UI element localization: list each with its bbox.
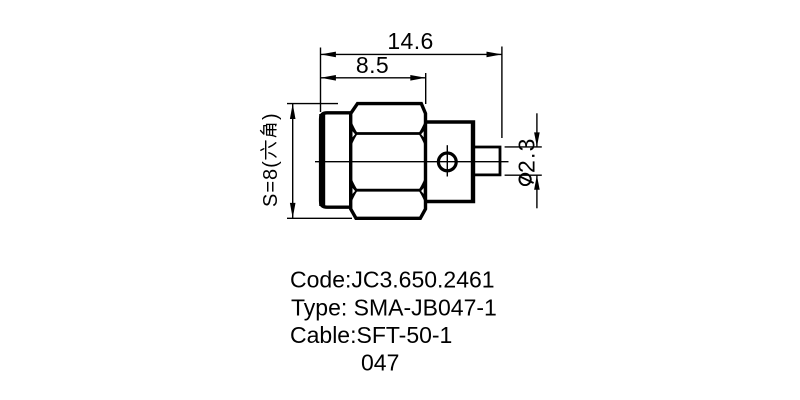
dimension dia2.3 diameter symbol [519, 174, 533, 185]
dimension 14.6 extension line right [501, 47, 503, 139]
svg-text:2.3: 2.3 [514, 137, 540, 173]
svg-text:): ) [260, 113, 282, 120]
hex facet line upper [351, 132, 426, 135]
svg-text:14.6: 14.6 [387, 28, 433, 54]
svg-text:047: 047 [361, 350, 399, 376]
svg-text:8.5: 8.5 [356, 52, 389, 78]
dimension dia2.3 leader line top [536, 113, 538, 147]
dimension S=8 rotated label with CJK glyphs [260, 113, 282, 207]
right body section [426, 122, 474, 202]
dimension 8.5 arrow right [410, 75, 425, 81]
hex facet line lower [351, 189, 426, 192]
dimension 14.6 line [321, 53, 502, 55]
horizontal centerline [315, 161, 509, 163]
hex body silhouette [351, 104, 426, 219]
CJK glyph liu (six) [261, 141, 276, 159]
CJK glyph jiao (angle/horn) [261, 124, 277, 136]
svg-text:S=8(: S=8( [260, 160, 282, 207]
dimension 14.6 extension line left [320, 48, 322, 113]
crimp hole circle [438, 153, 456, 171]
svg-text:Type: SMA-JB047-1: Type: SMA-JB047-1 [291, 295, 497, 321]
dimension dia2.3 extension line top [505, 146, 542, 148]
dimension S=8 line [292, 104, 294, 219]
dimension dia2.3 arrow bottom [534, 175, 540, 190]
svg-text:Cable:SFT-50-1: Cable:SFT-50-1 [290, 322, 452, 348]
dimension 8.5 arrow left [321, 75, 336, 81]
svg-text:Code:JC3.650.2461: Code:JC3.650.2461 [290, 267, 495, 293]
dimension S=8 extension line bottom [287, 217, 352, 219]
dimension 8.5 extension line right [425, 73, 427, 104]
dimension dia2.3 leader line bottom [536, 175, 538, 208]
dimension S=8 extension line top [287, 103, 338, 105]
dimension dia2.3 arrow top [534, 132, 540, 147]
dimension S=8 arrow top [290, 104, 296, 119]
dimension dia2.3 rotated label [514, 137, 540, 173]
coupling nut front cylinder [321, 113, 351, 207]
dimension 14.6 arrow right [487, 52, 502, 58]
hex corner chamfer white notches [353, 131, 424, 194]
dimension dia2.3 extension line bottom [505, 174, 542, 176]
dimension S=8 arrow bottom [290, 203, 296, 218]
dimension 8.5 line [321, 77, 426, 79]
center contact pin [474, 147, 501, 175]
dimension 14.6 arrow left [321, 52, 336, 58]
hex corner chamfer wedge left-upper [351, 120, 425, 203]
circle vertical centerline [446, 145, 448, 176]
